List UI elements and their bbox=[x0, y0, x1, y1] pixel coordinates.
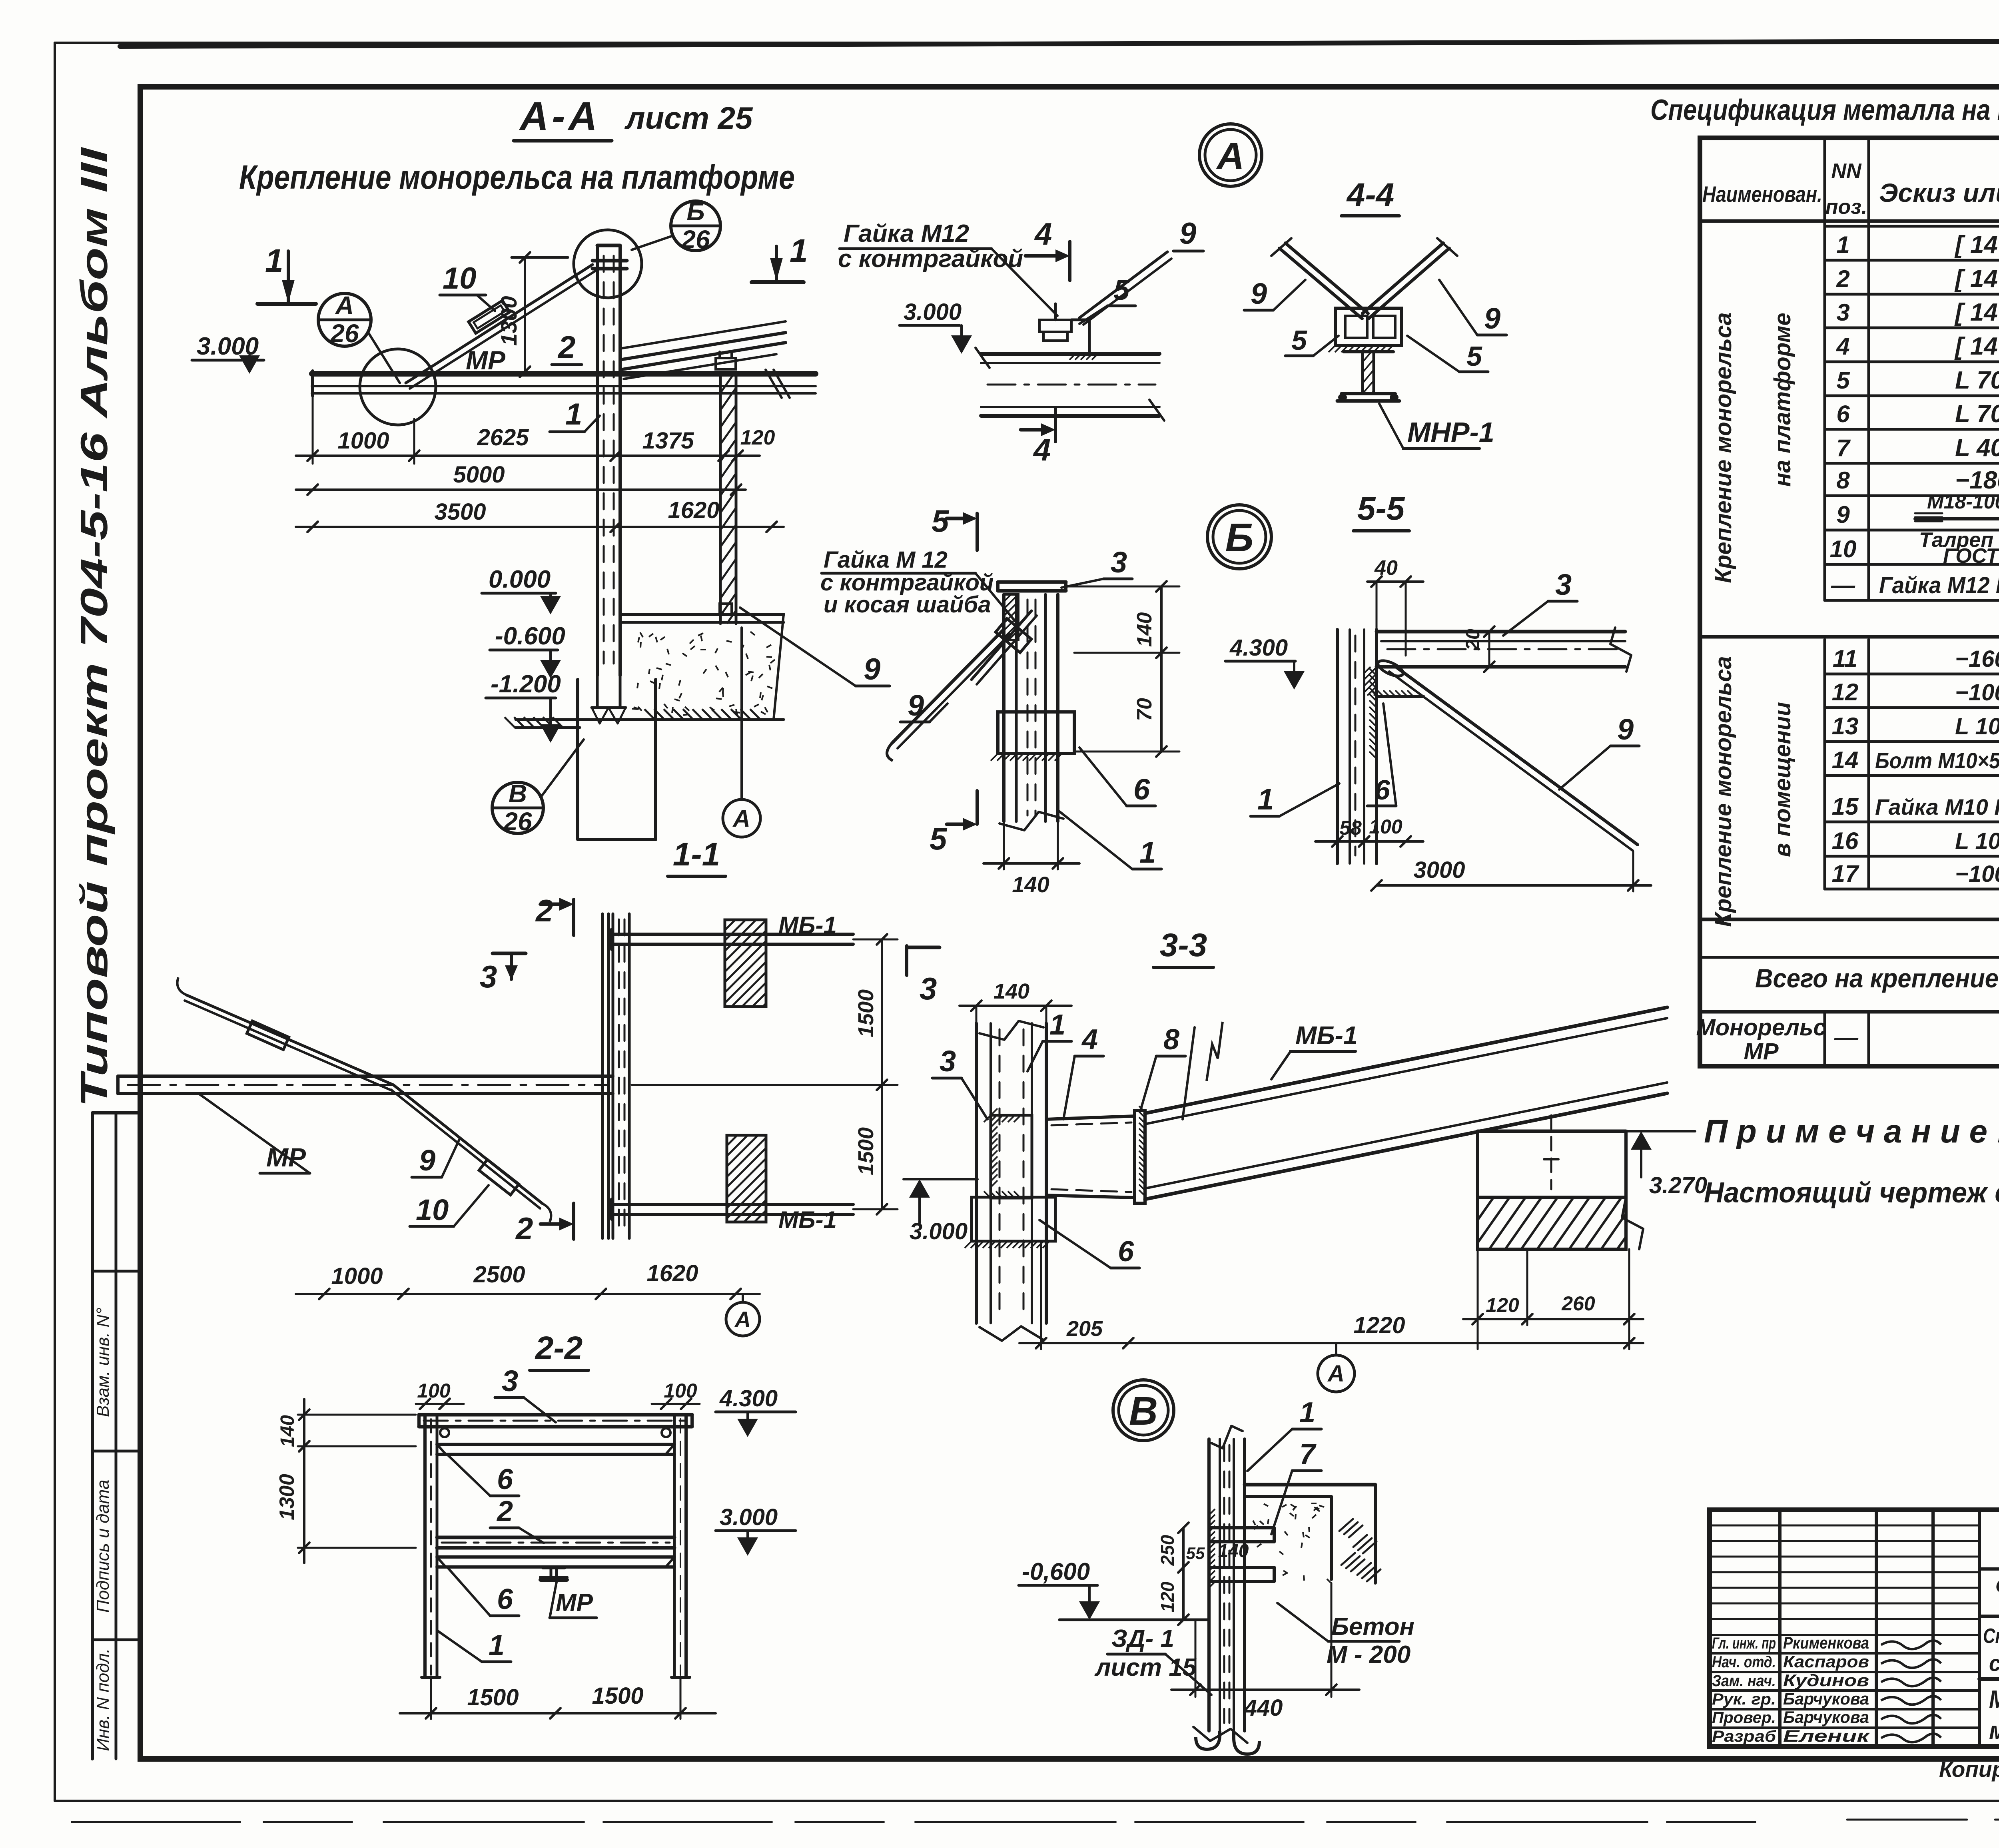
svg-text:[ 14: [ 14 bbox=[1954, 265, 1998, 293]
svg-text:А: А bbox=[734, 1307, 751, 1332]
svg-text:14: 14 bbox=[1832, 747, 1859, 773]
svg-text:5: 5 bbox=[930, 821, 948, 856]
svg-text:[ 14: [ 14 bbox=[1954, 231, 1998, 259]
svg-text:40: 40 bbox=[1374, 556, 1398, 580]
svg-text:3.270: 3.270 bbox=[1649, 1172, 1707, 1198]
svg-text:6: 6 bbox=[1375, 774, 1391, 805]
svg-text:9: 9 bbox=[1484, 302, 1500, 335]
1-1 top MB-1 bolt bbox=[608, 933, 853, 936]
axis circle A bottom bbox=[723, 799, 760, 837]
foundation pit bbox=[576, 680, 579, 837]
svg-text:Крепление монорельса: Крепление монорельса bbox=[1710, 312, 1736, 583]
svg-text:2: 2 bbox=[496, 1495, 513, 1527]
svg-text:1620: 1620 bbox=[668, 497, 719, 523]
detail circle A around joint bbox=[360, 349, 436, 425]
svg-text:МР: МР bbox=[1744, 1039, 1779, 1065]
signatures squiggles bbox=[1881, 1641, 1941, 1649]
outer thin border bbox=[55, 42, 1999, 44]
svg-text:1300: 1300 bbox=[496, 296, 521, 346]
svg-text:3: 3 bbox=[940, 1045, 956, 1078]
svg-text:9: 9 bbox=[908, 689, 924, 722]
label circle B/26 bbox=[671, 201, 720, 251]
svg-text:1620: 1620 bbox=[646, 1260, 698, 1286]
svg-text:Каспаров: Каспаров bbox=[1783, 1652, 1869, 1671]
svg-text:Типовой проект 704-5-16: Типовой проект 704-5-16 Альбом III bbox=[73, 146, 116, 1107]
svg-text:10: 10 bbox=[443, 261, 477, 295]
svg-text:4: 4 bbox=[1034, 216, 1052, 251]
3-3 column bbox=[975, 1023, 978, 1323]
svg-text:6: 6 bbox=[497, 1583, 513, 1615]
detail V big circle bbox=[1113, 1380, 1174, 1441]
V hooks bbox=[1196, 1731, 1220, 1749]
title block bbox=[1710, 1510, 1999, 1746]
svg-text:Настоящий чертеж см. совместно: Настоящий чертеж см. совместно с листом … bbox=[1704, 1177, 1999, 1209]
detail A big circle bbox=[1199, 124, 1262, 186]
svg-text:Провер.: Провер. bbox=[1712, 1709, 1776, 1726]
4-4 ties bbox=[1279, 248, 1362, 319]
svg-text:10: 10 bbox=[1830, 536, 1857, 562]
svg-text:9: 9 bbox=[1617, 713, 1634, 746]
svg-text:120: 120 bbox=[1157, 1581, 1178, 1612]
dim row 1 bbox=[312, 396, 314, 464]
svg-text:3: 3 bbox=[1836, 299, 1849, 326]
spec table frame bbox=[1700, 138, 1999, 1066]
svg-text:3.000: 3.000 bbox=[910, 1218, 968, 1244]
column cap & flange bbox=[593, 259, 627, 263]
ground line & hatch bbox=[516, 718, 784, 721]
roof beams incline bbox=[620, 333, 786, 360]
svg-text:9: 9 bbox=[1836, 501, 1850, 528]
svg-text:16: 16 bbox=[1832, 827, 1859, 854]
svg-text:1500: 1500 bbox=[467, 1685, 519, 1710]
svg-text:3: 3 bbox=[502, 1364, 518, 1397]
svg-text:1: 1 bbox=[1836, 231, 1849, 258]
svg-text:—: — bbox=[1834, 1024, 1859, 1051]
3-3 connection plate bbox=[991, 1115, 1032, 1198]
2-2 member pos6 bottom bbox=[437, 1555, 674, 1559]
rod 9 to nut bbox=[1079, 252, 1167, 318]
svg-text:9: 9 bbox=[419, 1144, 435, 1177]
title block right part bbox=[1979, 1567, 1999, 1571]
svg-text:А-А: А-А bbox=[519, 94, 600, 139]
3-3 right support bbox=[1478, 1130, 1626, 1133]
svg-text:12: 12 bbox=[1832, 679, 1859, 706]
column pos1 bbox=[596, 245, 599, 676]
svg-text:8: 8 bbox=[1836, 467, 1850, 494]
svg-text:1-1: 1-1 bbox=[673, 836, 720, 873]
detail B big circle bbox=[1207, 505, 1271, 569]
svg-text:3.000: 3.000 bbox=[720, 1504, 778, 1530]
svg-text:1375: 1375 bbox=[642, 428, 694, 454]
svg-text:5-5: 5-5 bbox=[1357, 490, 1405, 527]
5-5 console angle bbox=[1377, 667, 1423, 696]
svg-text:2: 2 bbox=[1836, 265, 1849, 292]
svg-text:58: 58 bbox=[1339, 817, 1362, 839]
svg-text:8: 8 bbox=[1163, 1024, 1179, 1056]
5-5 washer bbox=[1376, 658, 1405, 679]
beam detail A bbox=[981, 352, 1159, 356]
svg-text:−100×10: −100×10 bbox=[1955, 680, 1999, 706]
svg-text:3.000: 3.000 bbox=[904, 299, 962, 325]
svg-text:3000: 3000 bbox=[1413, 857, 1465, 883]
svg-text:Болт М10×50 ГОСТ 7798-70: Болт М10×50 ГОСТ 7798-70 bbox=[1875, 748, 1999, 773]
1-1 wall lines bbox=[601, 914, 604, 1238]
svg-text:Спецификация металла на моноре: Спецификация металла на монорельс и креп… bbox=[1650, 94, 1999, 126]
svg-text:и косая шайба: и косая шайба bbox=[824, 592, 991, 618]
3-3 dim 140 top bbox=[960, 1005, 1071, 1007]
svg-text:6: 6 bbox=[1133, 773, 1150, 806]
label circle A/26 bbox=[318, 293, 371, 346]
svg-text:26: 26 bbox=[503, 807, 532, 836]
svg-text:70: 70 bbox=[1133, 698, 1156, 721]
B clamp pos6 bbox=[998, 712, 1074, 754]
svg-text:4: 4 bbox=[1033, 432, 1051, 467]
B bottom break bbox=[999, 812, 1063, 830]
svg-text:П р и м е ч а н и е :: П р и м е ч а н и е : bbox=[1704, 1113, 1999, 1150]
svg-text:Нач. отд.: Нач. отд. bbox=[1712, 1653, 1776, 1671]
svg-text:250: 250 bbox=[1157, 1535, 1178, 1566]
svg-text:Монорельс: Монорельс bbox=[1696, 1015, 1826, 1041]
svg-text:лист 25: лист 25 bbox=[624, 100, 753, 136]
anchor rod pos9 hatched bbox=[719, 376, 722, 624]
svg-text:[ 14: [ 14 bbox=[1954, 333, 1998, 360]
svg-text:Склад для хранения балло: Склад для хранения баллонов bbox=[1995, 1574, 1999, 1598]
svg-text:17: 17 bbox=[1832, 860, 1859, 887]
svg-text:205: 205 bbox=[1066, 1317, 1103, 1341]
svg-text:2: 2 bbox=[515, 1211, 533, 1246]
svg-text:Гайка М 12: Гайка М 12 bbox=[824, 547, 948, 573]
B gusset hatched bbox=[1004, 594, 1018, 640]
svg-text:ГОСТ 9690-71: ГОСТ 9690-71 bbox=[1943, 544, 1999, 568]
svg-text:МБ-1: МБ-1 bbox=[778, 912, 837, 939]
5-5 column bbox=[1336, 630, 1339, 863]
svg-text:6: 6 bbox=[1836, 401, 1850, 427]
svg-text:1300: 1300 bbox=[275, 1474, 299, 1520]
svg-text:260: 260 bbox=[1561, 1292, 1595, 1315]
B column bbox=[1002, 594, 1005, 821]
V floor slab bbox=[1245, 1483, 1375, 1487]
svg-text:А: А bbox=[1216, 135, 1245, 177]
svg-text:1: 1 bbox=[1257, 783, 1274, 816]
svg-text:11: 11 bbox=[1833, 645, 1857, 672]
svg-text:15: 15 bbox=[1832, 793, 1859, 820]
floor slab bbox=[620, 613, 784, 616]
svg-text:Б: Б bbox=[1225, 515, 1254, 560]
1-1 column dashed bbox=[612, 914, 614, 1238]
V concrete speckles bbox=[1253, 1503, 1331, 1583]
svg-text:120: 120 bbox=[740, 426, 775, 449]
svg-text:L 100×10: L 100×10 bbox=[1955, 828, 1999, 854]
svg-text:в помещении: в помещении bbox=[1770, 702, 1796, 857]
turnbuckle on tie bbox=[469, 301, 510, 333]
svg-text:Разраб: Разраб bbox=[1712, 1728, 1776, 1745]
3-3 axis circle A bbox=[1318, 1355, 1355, 1392]
svg-text:7: 7 bbox=[1836, 435, 1851, 461]
5-5 beam pos3 bbox=[1377, 630, 1625, 634]
nut stack on beam bbox=[1039, 320, 1071, 332]
svg-text:26: 26 bbox=[330, 319, 359, 348]
marker 3 top 3-3 bbox=[905, 946, 908, 975]
svg-text:М - 200: М - 200 bbox=[1327, 1641, 1410, 1669]
svg-text:5: 5 bbox=[1113, 274, 1130, 306]
svg-text:В: В bbox=[1129, 1389, 1158, 1433]
svg-text:4: 4 bbox=[1836, 333, 1849, 360]
circle B/26 bottom bbox=[492, 782, 543, 833]
svg-text:7: 7 bbox=[1299, 1438, 1317, 1470]
svg-text:140: 140 bbox=[1133, 612, 1156, 647]
3-3 MB-1 beam bbox=[1145, 1007, 1667, 1113]
detail circle at column top bbox=[574, 230, 642, 298]
roof fitting bolt bbox=[716, 358, 736, 369]
svg-text:Монорельс. Крепление: Монорельс. Крепление bbox=[1989, 1686, 1999, 1713]
svg-text:100: 100 bbox=[1369, 815, 1402, 838]
svg-text:20: 20 bbox=[1462, 629, 1484, 651]
dim row 2 bbox=[296, 488, 746, 491]
svg-text:1: 1 bbox=[489, 1629, 505, 1661]
svg-text:140: 140 bbox=[1012, 872, 1049, 897]
svg-text:—: — bbox=[1831, 572, 1855, 598]
tie rod bbox=[406, 265, 593, 383]
svg-text:МНР-1: МНР-1 bbox=[1407, 417, 1494, 448]
svg-text:1: 1 bbox=[790, 233, 808, 269]
1-1 right dims 1500 bbox=[853, 939, 898, 941]
svg-text:-1.200: -1.200 bbox=[491, 670, 561, 698]
svg-text:1: 1 bbox=[265, 243, 283, 279]
svg-text:10: 10 bbox=[416, 1193, 449, 1226]
svg-text:Всего на крепление монорельса: Всего на крепление монорельса bbox=[1755, 963, 1999, 993]
svg-text:5: 5 bbox=[1836, 367, 1850, 394]
svg-text:2: 2 bbox=[535, 893, 553, 928]
svg-text:1500: 1500 bbox=[592, 1683, 643, 1709]
2-2 columns bbox=[423, 1415, 427, 1677]
V anchor plates pos7 bbox=[1211, 1526, 1274, 1529]
svg-text:2: 2 bbox=[557, 329, 575, 365]
svg-text:5: 5 bbox=[932, 503, 950, 538]
1-1 monorail MP bbox=[118, 1075, 613, 1078]
svg-text:1500: 1500 bbox=[854, 989, 878, 1037]
V dim 440 bbox=[1195, 1621, 1197, 1697]
svg-text:1220: 1220 bbox=[1353, 1312, 1405, 1338]
svg-text:L 70×5: L 70×5 bbox=[1955, 400, 1999, 428]
4-4 clamp box bbox=[1335, 308, 1402, 345]
2-2 bottom dims bbox=[430, 1677, 432, 1719]
platform beam MP bbox=[312, 371, 816, 377]
3-3 level 3.000 bbox=[909, 1179, 930, 1198]
svg-text:L 100×10: L 100×10 bbox=[1955, 714, 1999, 740]
dims 58 100 5-5 bbox=[1315, 840, 1423, 843]
2-2 left dims bbox=[304, 1420, 419, 1421]
1-1 bottom MB-1 bolt bbox=[608, 1203, 853, 1206]
svg-text:Гайка М10 ГОСТ 5915-70ˣ: Гайка М10 ГОСТ 5915-70ˣ bbox=[1875, 794, 1999, 819]
5-5 weld hatch column-beam bbox=[1369, 668, 1377, 759]
svg-text:со стенами из кирпича: со стенами из кирпича bbox=[1989, 1651, 1999, 1676]
2-2 middle member pos2 bbox=[437, 1536, 674, 1539]
3-3 bottom dims bbox=[1040, 1241, 1042, 1349]
axis circle A 1-1 bbox=[726, 1302, 760, 1336]
svg-text:4-4: 4-4 bbox=[1346, 177, 1395, 213]
3-3 console pos4 bbox=[1046, 1116, 1135, 1119]
svg-text:5: 5 bbox=[1291, 325, 1307, 356]
svg-text:140: 140 bbox=[277, 1415, 298, 1447]
svg-text:6: 6 bbox=[1118, 1236, 1134, 1268]
svg-text:2625: 2625 bbox=[477, 425, 529, 451]
svg-text:140: 140 bbox=[1218, 1540, 1249, 1561]
3-3 level 3.270 bbox=[1631, 1131, 1652, 1150]
svg-text:1: 1 bbox=[1299, 1397, 1315, 1429]
svg-text:Гайка М12: Гайка М12 bbox=[844, 220, 969, 247]
svg-text:5000: 5000 bbox=[453, 462, 505, 488]
svg-text:440: 440 bbox=[1244, 1695, 1283, 1721]
2-2 top member pos3 bbox=[419, 1413, 692, 1417]
svg-text:Еленик: Еленик bbox=[1783, 1726, 1870, 1745]
left stamp column bbox=[91, 1113, 94, 1759]
svg-text:0.000: 0.000 bbox=[489, 566, 551, 593]
svg-text:2500: 2500 bbox=[473, 1262, 525, 1288]
svg-text:А: А bbox=[1327, 1361, 1345, 1387]
2-2 member pos6 top bbox=[437, 1443, 674, 1446]
svg-text:МБ-1: МБ-1 bbox=[778, 1206, 837, 1233]
4-4 I-beam bbox=[1344, 350, 1393, 353]
svg-text:В: В bbox=[509, 779, 527, 808]
dim 3000 5-5 bbox=[1377, 884, 1651, 887]
svg-text:1000: 1000 bbox=[337, 428, 389, 454]
svg-text:4: 4 bbox=[1081, 1024, 1098, 1056]
svg-text:3500: 3500 bbox=[434, 499, 486, 525]
svg-text:9: 9 bbox=[1251, 277, 1267, 310]
svg-text:-0.600: -0.600 bbox=[495, 622, 565, 650]
svg-text:9: 9 bbox=[864, 652, 880, 686]
svg-text:Инв. N подл.: Инв. N подл. bbox=[93, 1648, 113, 1751]
svg-text:26: 26 bbox=[681, 225, 710, 254]
B right vertical dims bbox=[1066, 586, 1179, 588]
svg-text:Б: Б bbox=[686, 197, 704, 226]
svg-text:Рук. гр.: Рук. гр. bbox=[1712, 1691, 1776, 1708]
svg-text:монорельса.: монорельса. bbox=[1989, 1717, 1999, 1744]
svg-text:Склады на 200,400,740 баллонов: Склады на 200,400,740 баллонов bbox=[1983, 1625, 1999, 1648]
svg-text:Ркименкова: Ркименкова bbox=[1783, 1633, 1869, 1652]
svg-text:1: 1 bbox=[1139, 836, 1156, 869]
3-3 base clamp bbox=[972, 1197, 1055, 1241]
svg-text:А: А bbox=[335, 291, 354, 320]
svg-text:Зам. нач.: Зам. нач. bbox=[1712, 1672, 1776, 1690]
svg-text:МБ-1: МБ-1 bbox=[1295, 1021, 1358, 1050]
svg-text:4.300: 4.300 bbox=[1229, 635, 1288, 661]
svg-text:6: 6 bbox=[497, 1463, 513, 1495]
1-1 tie rod A bbox=[186, 995, 393, 1085]
svg-text:5: 5 bbox=[1466, 341, 1482, 372]
svg-text:Гайка М12 ГОСТ5915-70ˣ: Гайка М12 ГОСТ5915-70ˣ bbox=[1879, 572, 1999, 598]
svg-text:100: 100 bbox=[417, 1380, 451, 1402]
svg-text:Крепление монорельса: Крепление монорельса bbox=[1710, 656, 1736, 927]
3-3 end plate pos8 bbox=[1135, 1110, 1145, 1203]
svg-text:−160×14: −160×14 bbox=[1955, 646, 1999, 672]
page top edge thick bbox=[120, 40, 1999, 46]
svg-text:13: 13 bbox=[1832, 713, 1859, 740]
B bottom dim 140 bbox=[1003, 821, 1005, 869]
1-1 bottom dims bbox=[324, 1099, 325, 1299]
svg-text:МР: МР bbox=[556, 1589, 593, 1617]
svg-text:[ 14: [ 14 bbox=[1954, 299, 1998, 326]
concrete block speckles bbox=[774, 614, 784, 720]
svg-text:Взам. инв. N°: Взам. инв. N° bbox=[93, 1308, 113, 1417]
dim 1300 vertical bbox=[512, 256, 568, 259]
B cap plate bbox=[998, 580, 1066, 584]
svg-text:L 40×4: L 40×4 bbox=[1955, 434, 1999, 462]
V hatch right bbox=[1339, 1519, 1353, 1531]
svg-text:А: А bbox=[732, 805, 750, 832]
svg-text:на платформе: на платформе bbox=[1770, 313, 1796, 486]
svg-text:3: 3 bbox=[1111, 546, 1127, 579]
svg-text:Гл. инж. пр: Гл. инж. пр bbox=[1712, 1635, 1776, 1652]
svg-text:ЗД- 1: ЗД- 1 bbox=[1111, 1625, 1174, 1653]
svg-text:3: 3 bbox=[920, 971, 937, 1006]
svg-text:поз.: поз. bbox=[1825, 195, 1867, 219]
2-2 MP I-beam bbox=[543, 1566, 565, 1569]
svg-text:Эскиз или сечение: Эскиз или сечение bbox=[1879, 178, 1999, 207]
1-1 tie rod B bbox=[393, 1085, 543, 1204]
svg-text:3: 3 bbox=[1555, 568, 1572, 601]
svg-text:1000: 1000 bbox=[331, 1263, 383, 1289]
svg-text:L 70×5: L 70×5 bbox=[1955, 367, 1999, 394]
svg-text:120: 120 bbox=[1486, 1294, 1519, 1316]
3-3 brick hatch bbox=[1478, 1197, 1626, 1249]
svg-text:1500: 1500 bbox=[854, 1127, 878, 1175]
svg-text:9: 9 bbox=[1179, 217, 1196, 251]
dim row 3 bbox=[296, 526, 784, 528]
svg-text:Подпись и дата: Подпись и дата bbox=[93, 1480, 113, 1613]
svg-text:М18-100: М18-100 bbox=[1927, 490, 1999, 513]
svg-text:4.300: 4.300 bbox=[719, 1386, 778, 1411]
svg-text:Крепление монорельса на пла: Крепление монорельса на платформе bbox=[239, 158, 795, 196]
svg-text:55: 55 bbox=[1186, 1544, 1205, 1563]
svg-text:140: 140 bbox=[994, 979, 1029, 1003]
svg-text:Бетон: Бетон bbox=[1331, 1613, 1414, 1641]
dim 40 5-5 bbox=[1367, 580, 1423, 583]
svg-text:−100×6: −100×6 bbox=[1955, 861, 1999, 887]
svg-text:3: 3 bbox=[480, 959, 497, 994]
svg-text:-0,600: -0,600 bbox=[1022, 1558, 1090, 1585]
svg-text:Барчукова: Барчукова bbox=[1783, 1708, 1869, 1726]
column into pit bbox=[596, 676, 599, 708]
svg-text:Кудинов: Кудинов bbox=[1783, 1671, 1869, 1690]
svg-text:1: 1 bbox=[1049, 1009, 1065, 1041]
V column bbox=[1207, 1439, 1211, 1731]
svg-text:−180×10: −180×10 bbox=[1955, 466, 1999, 494]
5-5 tie rod bbox=[1394, 666, 1638, 845]
svg-text:NN: NN bbox=[1831, 159, 1862, 183]
B bolt & nut bbox=[972, 611, 1031, 680]
B tie rod bbox=[892, 629, 1004, 743]
svg-text:2-2: 2-2 bbox=[535, 1330, 583, 1366]
svg-text:Наименован.: Наименован. bbox=[1702, 181, 1822, 207]
svg-text:Барчукова: Барчукова bbox=[1783, 1689, 1869, 1708]
svg-text:1: 1 bbox=[565, 397, 582, 431]
V dims small bbox=[1182, 1528, 1185, 1620]
svg-text:3-3: 3-3 bbox=[1160, 927, 1207, 963]
svg-text:Копировал: Мшц.-: Копировал: Мшц.- bbox=[1939, 1757, 1999, 1782]
bottom scan edge line bbox=[72, 1821, 1755, 1823]
